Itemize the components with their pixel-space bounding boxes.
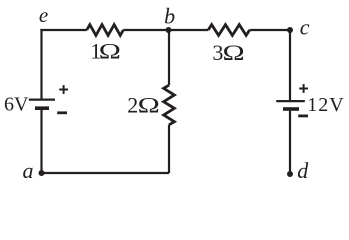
svg-text:Ω: Ω — [99, 39, 121, 63]
battery V1 long plate — [29, 98, 55, 100]
node c junction dot — [287, 27, 293, 33]
battery V2 short plate — [283, 107, 299, 111]
value label 2ohm — [127, 93, 159, 118]
wire battery V1 to node a — [40, 110, 42, 173]
wire node b to R3 — [169, 29, 209, 31]
node d terminal dot — [287, 171, 293, 177]
value label 1ohm — [90, 38, 121, 63]
wire R3 to node c — [250, 29, 290, 31]
svg-text:Ω: Ω — [223, 41, 245, 65]
svg-text:e: e — [39, 3, 48, 27]
svg-text:12V: 12V — [307, 94, 344, 116]
wire corner up to R2 — [168, 125, 170, 173]
resistor R2 2ohm zigzag — [164, 85, 175, 125]
minus sign V1 — [57, 111, 67, 114]
svg-text:6V: 6V — [4, 94, 29, 116]
svg-text:Ω: Ω — [138, 93, 160, 117]
wire e to R1 — [40, 29, 86, 31]
node a junction dot — [39, 170, 45, 176]
wire battery V2 to node d — [289, 111, 291, 174]
plus sign V2 — [299, 84, 308, 93]
wire node c down to battery V2 — [289, 30, 291, 100]
value label 3ohm — [212, 40, 244, 65]
battery V1 short plate — [35, 106, 49, 110]
svg-text:b: b — [164, 3, 175, 28]
wire e down to battery V1 — [40, 29, 42, 99]
resistor R1 1ohm zigzag — [87, 25, 123, 36]
resistor R3 3ohm zigzag — [208, 25, 249, 36]
minus sign V2 — [298, 115, 308, 118]
battery V2 long plate — [276, 100, 305, 102]
svg-text:d: d — [297, 158, 309, 183]
svg-text:a: a — [23, 158, 34, 183]
wire bottom a to corner — [42, 172, 170, 174]
svg-text:c: c — [300, 15, 310, 40]
node b junction dot — [166, 27, 172, 33]
wire R2 up to node b — [168, 30, 170, 85]
wire R1 to node b — [123, 29, 168, 31]
plus sign V1 — [59, 85, 68, 94]
